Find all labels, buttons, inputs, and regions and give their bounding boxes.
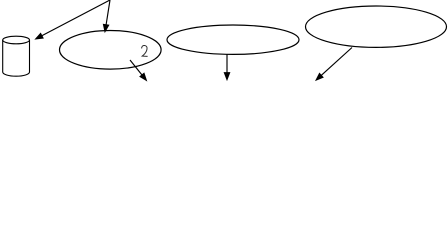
arrow from E2 — [224, 54, 229, 79]
ellipse E3 — [306, 6, 447, 47]
arrow from E3 — [316, 48, 352, 81]
arrow from E1 — [130, 60, 146, 80]
cylinder DB — [3, 36, 30, 76]
ellipse E1 — [60, 31, 162, 70]
label 2 — [142, 45, 148, 56]
wire arrow to cylinder — [36, 0, 110, 39]
wire arrow to ellipse E1 — [104, 0, 111, 32]
ellipse E2 — [167, 25, 299, 54]
